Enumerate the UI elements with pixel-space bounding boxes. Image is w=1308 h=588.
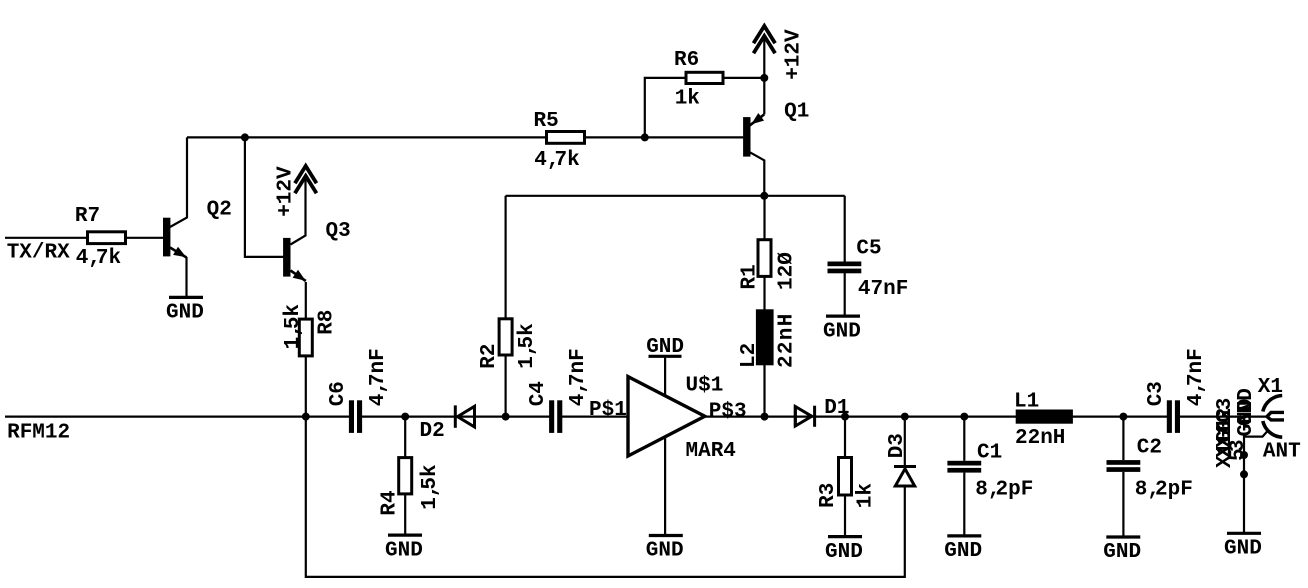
ground R3 [828, 535, 862, 538]
wire R7 to Q2 base [126, 237, 164, 239]
wire C5 branch drop [844, 196, 846, 262]
supply +12V Q1 [754, 26, 776, 43]
ground U$1 bottom [649, 534, 683, 537]
svg-text:+12V: +12V [275, 166, 298, 217]
wire U$1 P$3 to C3 [704, 416, 1169, 418]
wire C4 to U$1 P$1 [561, 416, 627, 418]
svg-text:D3: D3 [886, 433, 909, 458]
wire C2 branch [1122, 417, 1124, 461]
capacitor C4 [549, 400, 554, 433]
svg-text:GND: GND [823, 320, 861, 343]
ground C1 [947, 534, 981, 537]
svg-text:4,7nF: 4,7nF [367, 348, 390, 406]
ground R4 [388, 533, 422, 536]
wire R1 top [763, 196, 765, 240]
wire D3 to main line [904, 417, 906, 466]
svg-text:1,5k: 1,5k [516, 323, 539, 368]
wire top bus to Q3 base [245, 137, 284, 257]
resistor R8 [299, 319, 312, 356]
ground U$1 top [649, 355, 682, 358]
wire R3 branch [844, 417, 846, 458]
svg-text:GND: GND [646, 540, 684, 563]
junction R6 branch [641, 133, 649, 141]
svg-text:R2: R2 [478, 343, 501, 368]
transistor Q1 [743, 117, 750, 157]
wire C1 branch [963, 417, 965, 461]
resistor R5 [547, 132, 585, 144]
junction D2-C4 node [502, 413, 510, 421]
wire C5 to ground [844, 273, 846, 316]
wire top bus Q2-R5-Q1 [187, 136, 744, 138]
junction C2 node [1119, 413, 1127, 421]
wire +12V drop to Q1 emitter [763, 38, 765, 115]
svg-text:Q3: Q3 [326, 220, 351, 243]
diode D3 [894, 465, 916, 468]
svg-text:GND: GND [166, 302, 204, 325]
svg-text:TX/RX: TX/RX [7, 241, 70, 264]
junction X1 gnd b [1240, 470, 1248, 478]
wire main RFM12 segment [5, 416, 350, 418]
transistor Q2 [163, 218, 170, 257]
svg-text:4,7nF: 4,7nF [1185, 348, 1208, 406]
capacitor C5 [828, 262, 862, 267]
diode D1 [794, 406, 797, 427]
svg-text:C1: C1 [977, 442, 1002, 465]
svg-text:L1: L1 [1014, 390, 1039, 413]
wire C3 to X1 [1179, 416, 1267, 418]
svg-text:22nH: 22nH [1015, 427, 1065, 450]
wire drop to R2 [505, 196, 507, 319]
wire R8 to main line [305, 356, 307, 417]
wire TX/RX input [5, 237, 87, 239]
svg-text:3: 3 [1227, 439, 1250, 452]
wire Q2 collector riser [170, 137, 187, 227]
op-amp U$1 MAR4 [628, 377, 705, 456]
svg-text:GND: GND [1224, 538, 1262, 561]
svg-text:1k: 1k [675, 87, 700, 110]
wire R3 to ground [844, 495, 846, 536]
capacitor C2 [1107, 460, 1141, 465]
resistor R6 [686, 72, 723, 83]
svg-text:R6: R6 [674, 49, 699, 72]
ground C5 [826, 315, 860, 318]
svg-text:C5: C5 [856, 238, 881, 261]
svg-text:GND: GND [646, 336, 684, 359]
svg-text:Q1: Q1 [784, 101, 809, 124]
capacitor C1 [947, 461, 981, 466]
svg-text:8,2pF: 8,2pF [975, 479, 1033, 502]
svg-text:GND: GND [385, 539, 423, 562]
svg-text:R8: R8 [316, 310, 339, 335]
svg-text:47nF: 47nF [858, 278, 908, 301]
svg-text:P$3: P$3 [709, 400, 747, 423]
junction C6-D2 node [401, 413, 409, 421]
junction RFM12 node [302, 413, 310, 421]
svg-text:4,7k: 4,7k [534, 149, 579, 172]
svg-text:GND: GND [944, 540, 982, 563]
wire R1 to L2 [763, 276, 765, 310]
junction D1-R3 node [841, 413, 849, 421]
ground Q2 emitter [169, 296, 203, 299]
junction X1 gnd a [1240, 451, 1248, 459]
ground C2 [1106, 535, 1140, 538]
wire R4 branch [404, 417, 406, 458]
wire C2 to ground [1122, 472, 1124, 536]
svg-text:Q2: Q2 [207, 199, 232, 222]
wire X1 shield to ground [1244, 431, 1268, 533]
wire R2 to main line [505, 355, 507, 417]
svg-text:ANT: ANT [1263, 441, 1301, 464]
svg-text:R5: R5 [534, 110, 559, 133]
svg-text:R7: R7 [75, 205, 100, 228]
wire R6 left branch [645, 78, 686, 137]
svg-text:C3: C3 [1145, 381, 1168, 406]
svg-text:1,5k: 1,5k [282, 304, 305, 349]
svg-text:R4: R4 [379, 490, 402, 515]
svg-text:P$1: P$1 [589, 399, 627, 422]
inductor L2 [756, 309, 774, 365]
svg-text:U$1: U$1 [686, 375, 724, 398]
svg-text:+12V: +12V [783, 29, 806, 80]
capacitor C6 [349, 400, 354, 433]
resistor R1 [758, 240, 771, 277]
supply +12V Q3 [295, 166, 317, 183]
svg-text:R1: R1 [738, 264, 761, 289]
svg-text:1k: 1k [854, 483, 877, 508]
transistor Q3 [283, 238, 290, 277]
svg-text:R3: R3 [817, 483, 840, 508]
svg-text:1,5k: 1,5k [419, 464, 442, 509]
svg-text:MAR4: MAR4 [686, 440, 736, 463]
svg-text:D2: D2 [420, 420, 445, 443]
diode D2 [454, 405, 457, 427]
svg-text:L2: L2 [738, 343, 761, 368]
wire feedback bus y196 [506, 195, 845, 197]
svg-text:C6: C6 [327, 381, 350, 406]
svg-text:C4: C4 [527, 381, 550, 406]
capacitor C3 [1167, 400, 1172, 433]
svg-text:8,2pF: 8,2pF [1135, 479, 1193, 502]
svg-text:4,7nF: 4,7nF [567, 348, 590, 406]
inductor L1 [1016, 410, 1073, 424]
connector X1 ANT [1263, 396, 1282, 412]
resistor R3 [839, 458, 852, 496]
svg-text:GND: GND [1103, 541, 1141, 564]
wire C6 to C4 segment [361, 416, 551, 418]
junction C1 node [960, 413, 968, 421]
junction +12V node [760, 74, 768, 82]
wire C1 to ground [963, 473, 965, 535]
junction top bus / Q3 branch [241, 133, 249, 141]
junction Q1 collector node [760, 192, 768, 200]
wire L2 to main line [763, 365, 765, 417]
wire feedback loop bottom [306, 417, 905, 577]
resistor R4 [399, 458, 412, 494]
svg-text:RFM12: RFM12 [7, 421, 70, 444]
junction L2 output node [761, 413, 769, 421]
svg-text:12Ø: 12Ø [776, 252, 799, 290]
ground X1 [1227, 532, 1261, 535]
svg-text:GND: GND [1235, 388, 1258, 426]
svg-text:X1: X1 [1258, 376, 1283, 399]
wire Q1 collector riser [750, 152, 764, 196]
resistor R2 [499, 319, 512, 355]
svg-text:GND: GND [825, 541, 863, 564]
svg-text:4,7k: 4,7k [76, 247, 121, 270]
svg-text:22nH: 22nH [776, 312, 799, 368]
wire Q3 emitter to R8 [305, 282, 307, 319]
junction D3 node [901, 413, 909, 421]
wire R4 to ground [404, 494, 406, 535]
svg-text:C2: C2 [1137, 436, 1162, 459]
wire R6 right to +12V node [723, 77, 764, 79]
resistor R7 [88, 232, 126, 244]
wire U$1 gnd vertical [664, 357, 666, 535]
